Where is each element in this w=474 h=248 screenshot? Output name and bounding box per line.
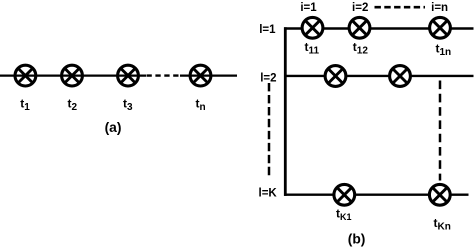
crossed-circle t1: [15, 65, 36, 86]
svg-text:t1n: t1n: [436, 41, 452, 58]
crossed-circle t3: [118, 65, 139, 86]
wire part (b) left vertical bus: [284, 27, 287, 196]
crossed-circle row2 right: [390, 66, 411, 87]
wire row K: [284, 193, 469, 195]
svg-text:t3: t3: [123, 97, 133, 114]
svg-text:t11: t11: [305, 40, 320, 57]
svg-text:i=2: i=2: [352, 2, 368, 14]
svg-text:l=1: l=1: [259, 24, 276, 36]
crossed-circle t1n: [430, 17, 451, 38]
wire row 1: [284, 27, 474, 29]
crossed-circle t11: [302, 17, 323, 38]
wire left vertical dashed (row ellipsis): [268, 83, 271, 175]
svg-text:t1: t1: [20, 97, 30, 114]
wire part (a) right solid segment: [180, 74, 237, 76]
svg-text:i=1: i=1: [300, 2, 317, 14]
svg-text:(b): (b): [348, 231, 366, 246]
svg-text:tKn: tKn: [434, 216, 451, 233]
svg-text:i=n: i=n: [431, 2, 448, 14]
wire right vertical dashed (column n): [439, 81, 442, 181]
wire part (a) dashed segment: [147, 74, 182, 76]
wire row 2: [284, 75, 474, 77]
crossed-circle tK1: [334, 184, 355, 205]
svg-text:t12: t12: [353, 40, 369, 57]
svg-text:(a): (a): [105, 120, 122, 135]
svg-text:l=2: l=2: [260, 72, 276, 84]
wire part (a) main line left solid segment: [0, 74, 146, 76]
svg-text:tn: tn: [196, 97, 206, 114]
svg-text:tK1: tK1: [336, 207, 352, 223]
crossed-circle row2 left: [325, 66, 346, 87]
wire top dashed (between i=2 and i=n): [375, 6, 426, 9]
crossed-circle t2: [62, 65, 83, 86]
crossed-circle tKn: [429, 184, 450, 205]
svg-text:t2: t2: [68, 97, 78, 114]
svg-text:l=K: l=K: [259, 188, 278, 200]
crossed-circle tn: [190, 65, 211, 86]
crossed-circle t12: [349, 17, 370, 38]
